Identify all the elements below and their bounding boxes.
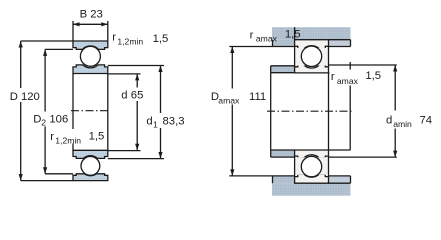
svg-text:r: r bbox=[331, 71, 335, 83]
svg-text:d: d bbox=[121, 90, 127, 102]
svg-text:1,2min: 1,2min bbox=[55, 135, 81, 145]
svg-text:d: d bbox=[386, 114, 392, 126]
svg-text:D 120: D 120 bbox=[10, 91, 40, 103]
svg-text:1,5: 1,5 bbox=[365, 70, 381, 82]
svg-text:amax: amax bbox=[256, 34, 278, 44]
svg-text:amax: amax bbox=[218, 95, 240, 105]
svg-text:1,5: 1,5 bbox=[285, 28, 301, 40]
svg-text:83,3: 83,3 bbox=[163, 115, 185, 127]
svg-text:r: r bbox=[112, 32, 116, 44]
svg-text:amax: amax bbox=[337, 76, 359, 86]
svg-text:r: r bbox=[250, 30, 254, 42]
svg-text:74: 74 bbox=[420, 114, 433, 126]
svg-text:1: 1 bbox=[153, 119, 158, 129]
svg-text:amin: amin bbox=[393, 119, 412, 129]
svg-text:B 23: B 23 bbox=[80, 8, 103, 20]
svg-text:2: 2 bbox=[41, 118, 46, 128]
svg-text:r: r bbox=[50, 131, 54, 143]
svg-text:D: D bbox=[33, 114, 41, 126]
svg-text:1,2min: 1,2min bbox=[117, 36, 143, 46]
svg-text:d: d bbox=[146, 115, 152, 127]
svg-text:111: 111 bbox=[249, 91, 266, 103]
svg-text:1,5: 1,5 bbox=[89, 131, 105, 143]
svg-text:65: 65 bbox=[131, 90, 144, 102]
svg-text:1,5: 1,5 bbox=[153, 33, 169, 45]
svg-text:106: 106 bbox=[49, 114, 68, 126]
